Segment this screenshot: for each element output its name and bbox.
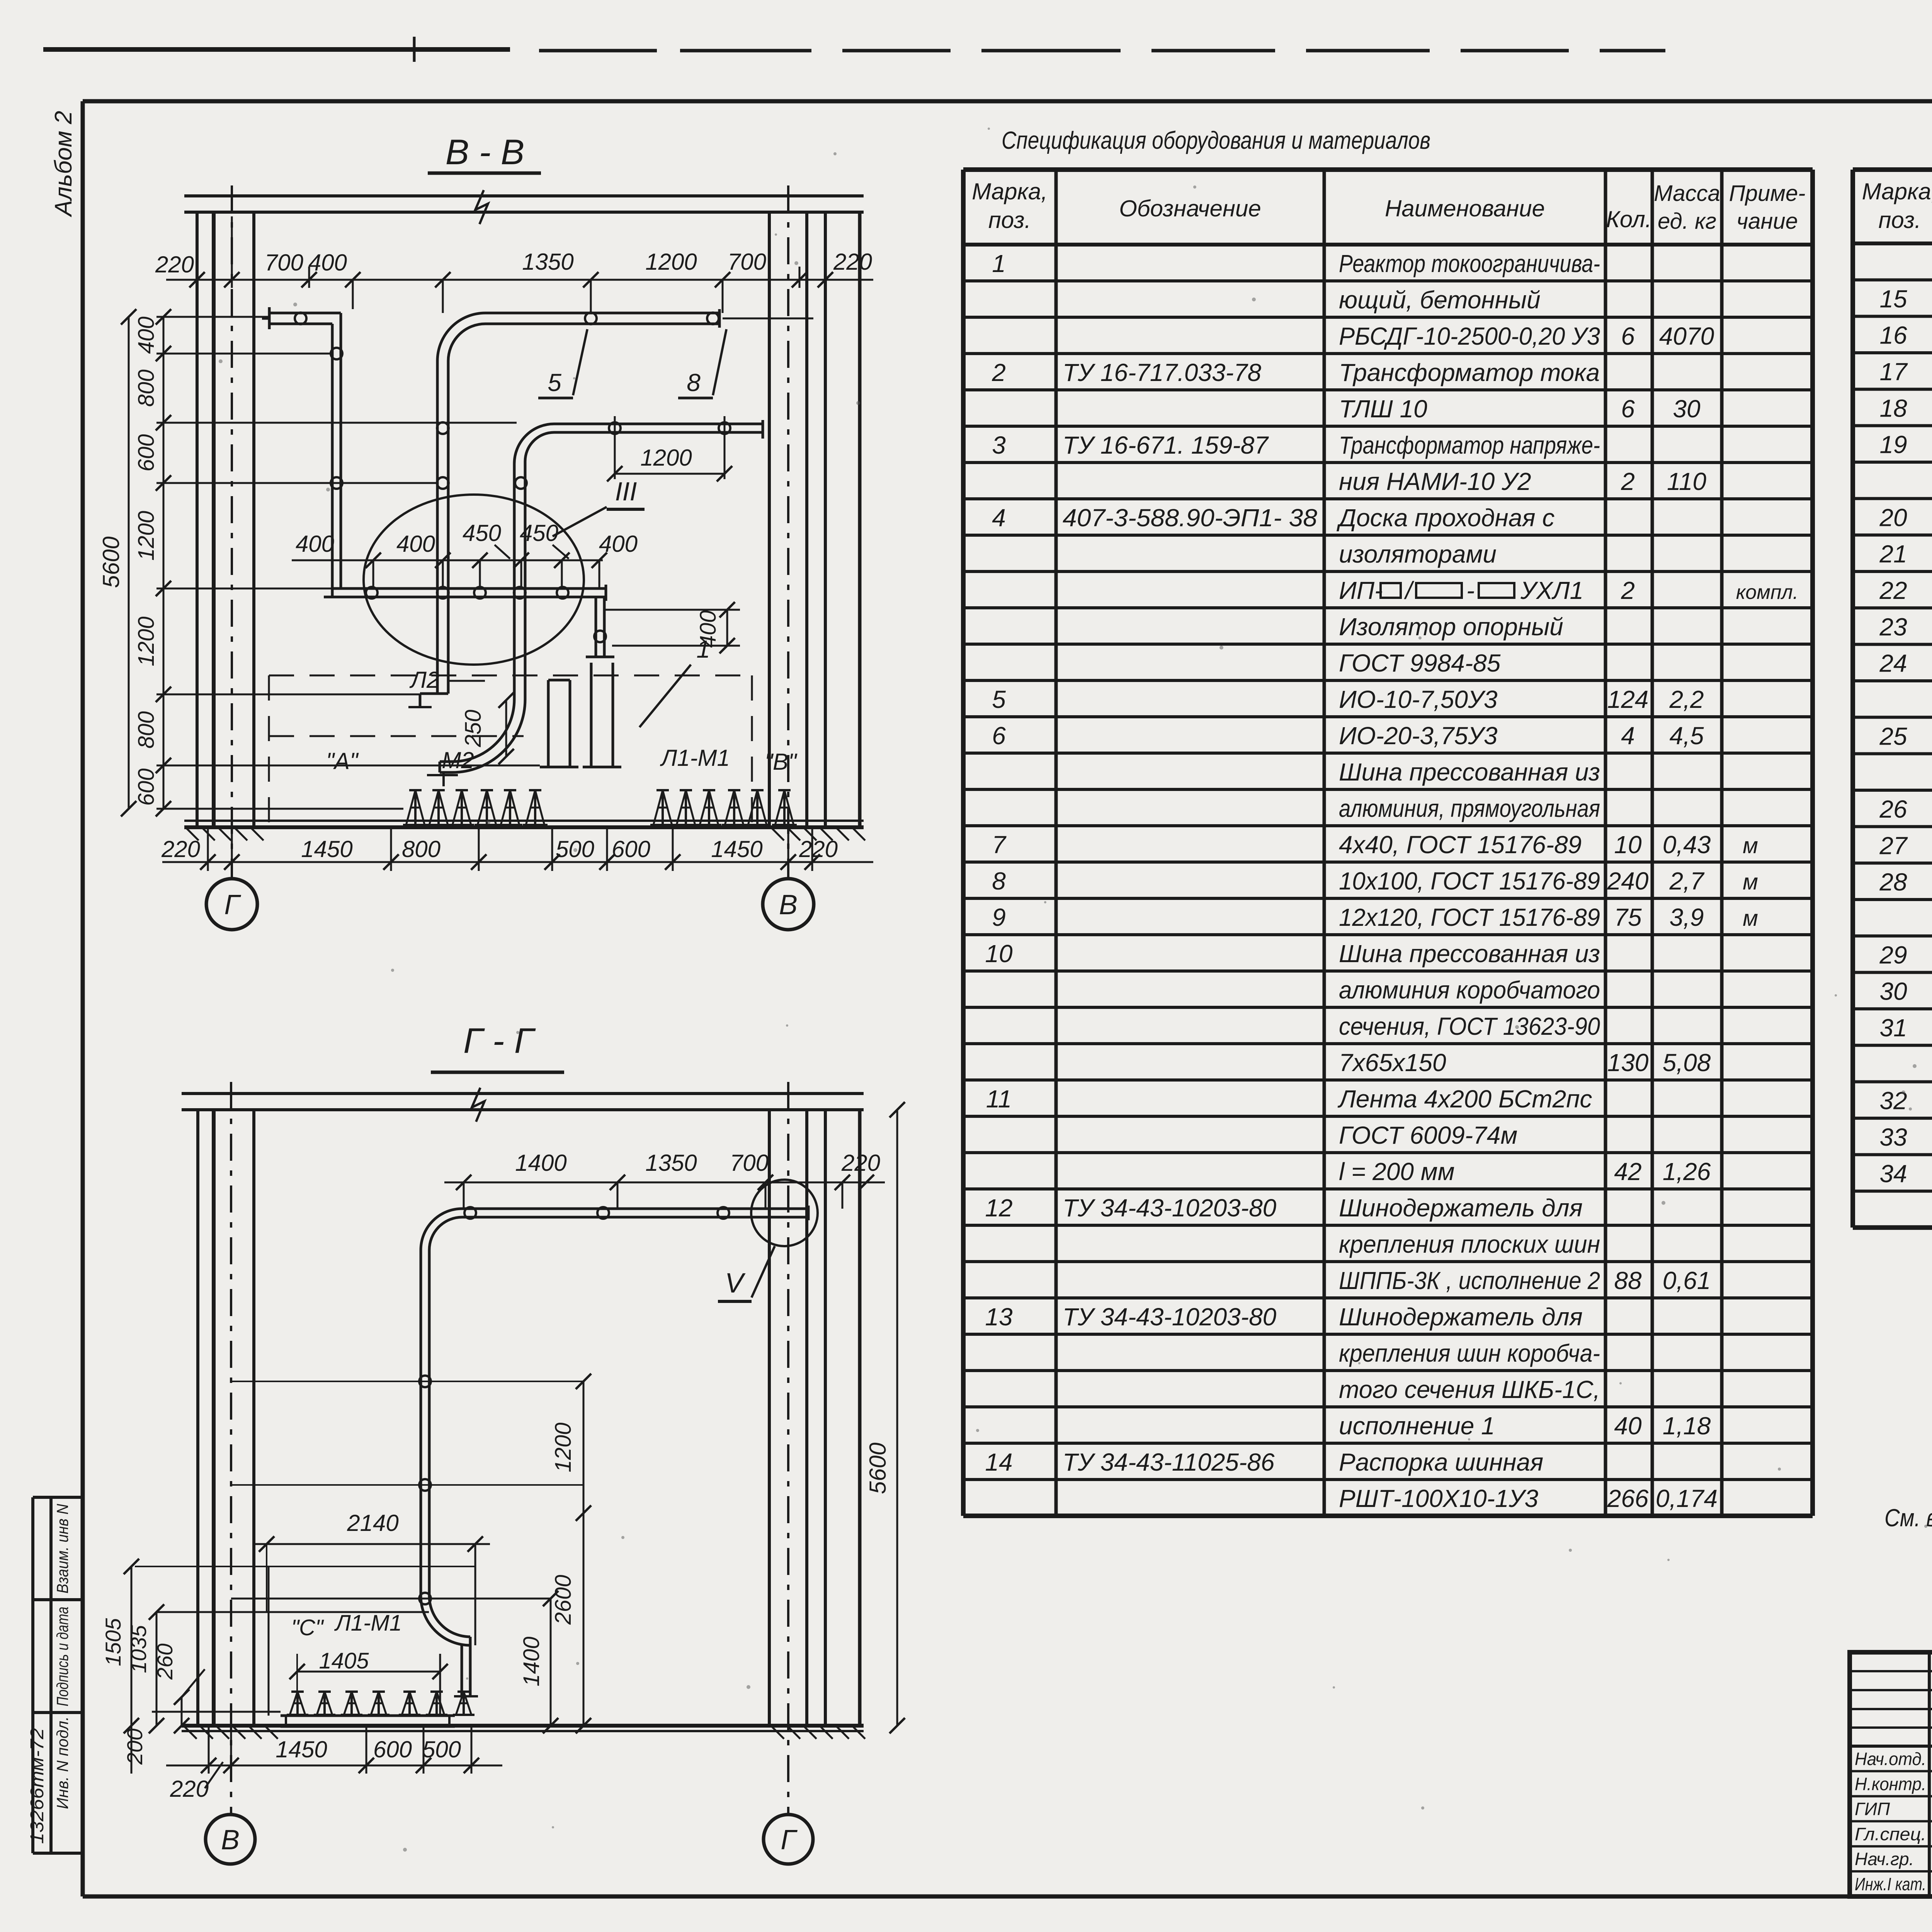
svg-text:Подпись и дата: Подпись и дата: [53, 1607, 71, 1706]
svg-text:поз.: поз.: [988, 207, 1031, 233]
svg-text:Доска проходная с: Доска проходная с: [1337, 504, 1554, 532]
svg-text:ТУ 16-671. 159-87: ТУ 16-671. 159-87: [1063, 431, 1269, 459]
svg-text:ТУ 34-43-10203-80: ТУ 34-43-10203-80: [1063, 1303, 1277, 1331]
svg-text:220: 220: [799, 836, 838, 862]
svg-text:450: 450: [520, 520, 558, 546]
svg-text:6: 6: [1621, 395, 1635, 423]
svg-text:3,9: 3,9: [1670, 903, 1704, 931]
svg-text:1505: 1505: [101, 1618, 125, 1666]
svg-text:2: 2: [992, 359, 1006, 386]
svg-text:м: м: [1743, 906, 1758, 931]
svg-text:800: 800: [134, 369, 159, 407]
svg-text:18: 18: [1879, 394, 1907, 422]
svg-text:21: 21: [1879, 540, 1907, 568]
svg-text:24: 24: [1879, 650, 1907, 677]
svg-text:V: V: [725, 1268, 746, 1299]
svg-text:40: 40: [1614, 1412, 1642, 1440]
svg-text:ШППБ-3К , исполнение 2: ШППБ-3К , исполнение 2: [1339, 1267, 1600, 1294]
svg-text:17: 17: [1879, 358, 1908, 386]
svg-text:поз.: поз.: [1878, 207, 1921, 233]
svg-text:Инж.I кат.: Инж.I кат.: [1855, 1874, 1926, 1894]
svg-text:700: 700: [265, 250, 303, 276]
svg-text:400: 400: [134, 316, 159, 354]
svg-text:130: 130: [1607, 1049, 1649, 1077]
svg-text:400: 400: [308, 250, 347, 276]
svg-text:88: 88: [1614, 1267, 1642, 1294]
svg-text:0,43: 0,43: [1663, 831, 1711, 859]
svg-text:ТУ 34-43-10203-80: ТУ 34-43-10203-80: [1063, 1194, 1277, 1222]
svg-text:ИП-: ИП-: [1339, 577, 1383, 604]
svg-text:крепления шин коробча-: крепления шин коробча-: [1339, 1339, 1600, 1367]
svg-text:ИО-10-7,50У3: ИО-10-7,50У3: [1339, 685, 1498, 713]
svg-text:30: 30: [1879, 978, 1907, 1005]
svg-text:220: 220: [155, 252, 194, 277]
svg-text:ТЛШ 10: ТЛШ 10: [1339, 395, 1427, 423]
svg-text:600: 600: [134, 769, 159, 806]
svg-text:700: 700: [730, 1150, 769, 1176]
svg-text:Обозначение: Обозначение: [1119, 196, 1261, 221]
svg-text:400: 400: [296, 531, 334, 557]
svg-text:110: 110: [1667, 468, 1706, 495]
svg-text:11: 11: [986, 1085, 1012, 1113]
svg-text:7: 7: [992, 831, 1007, 859]
svg-text:1200: 1200: [551, 1422, 576, 1472]
svg-text:-: -: [1466, 577, 1475, 604]
svg-text:Кол.: Кол.: [1606, 206, 1652, 232]
svg-text:3: 3: [992, 431, 1006, 459]
svg-text:изоляторами: изоляторами: [1339, 540, 1497, 568]
svg-text:1200: 1200: [645, 249, 697, 275]
svg-text:27: 27: [1879, 832, 1908, 859]
svg-text:Шинодержатель для: Шинодержатель для: [1339, 1194, 1583, 1222]
svg-text:4: 4: [992, 504, 1006, 532]
svg-text:Г: Г: [224, 889, 241, 920]
svg-text:5: 5: [548, 369, 561, 396]
svg-text:Изолятор опорный: Изолятор опорный: [1339, 613, 1563, 641]
svg-text:600: 600: [612, 836, 650, 862]
svg-text:Шинодержатель для: Шинодержатель для: [1339, 1303, 1583, 1331]
svg-text:"С": "С": [291, 1615, 324, 1640]
svg-text:ющий, бетонный: ющий, бетонный: [1339, 286, 1541, 314]
svg-text:Марка,: Марка,: [1862, 179, 1932, 204]
svg-text:Л1-М1: Л1-М1: [660, 745, 730, 771]
svg-text:См. вместе с листом ЭП1-24: См. вместе с листом ЭП1-24: [1884, 1504, 1932, 1532]
svg-text:13: 13: [985, 1303, 1013, 1331]
svg-text:30: 30: [1673, 395, 1701, 423]
svg-text:В: В: [221, 1825, 240, 1855]
svg-text:5,08: 5,08: [1663, 1049, 1711, 1077]
svg-text:"А": "А": [326, 748, 359, 774]
svg-text:1350: 1350: [645, 1150, 697, 1176]
svg-text:407-3-588.90-ЭП1- 38: 407-3-588.90-ЭП1- 38: [1063, 504, 1317, 532]
svg-text:12: 12: [985, 1194, 1012, 1222]
svg-text:28: 28: [1879, 868, 1907, 896]
svg-text:260: 260: [153, 1643, 177, 1680]
svg-text:2600: 2600: [551, 1575, 576, 1625]
svg-text:400: 400: [396, 531, 435, 557]
svg-text:600: 600: [134, 434, 159, 472]
svg-text:Распорка шинная: Распорка шинная: [1339, 1448, 1543, 1476]
svg-text:Трансформатор напряже-: Трансформатор напряже-: [1339, 431, 1600, 459]
svg-text:ТУ 16-717.033-78: ТУ 16-717.033-78: [1063, 359, 1262, 386]
svg-text:Н.контр.: Н.контр.: [1855, 1774, 1926, 1794]
svg-text:1,18: 1,18: [1663, 1412, 1711, 1440]
svg-text:1400: 1400: [519, 1636, 544, 1686]
svg-text:1035: 1035: [126, 1625, 151, 1673]
svg-text:III: III: [615, 477, 637, 506]
svg-text:м: м: [1743, 833, 1758, 858]
svg-text:2,7: 2,7: [1669, 867, 1705, 895]
svg-text:10х100, ГОСТ 15176-89: 10х100, ГОСТ 15176-89: [1339, 867, 1600, 895]
svg-text:10: 10: [985, 940, 1013, 968]
svg-text:1450: 1450: [301, 836, 352, 862]
svg-text:8: 8: [992, 867, 1006, 895]
svg-text:13266тм-72: 13266тм-72: [27, 1728, 48, 1844]
svg-text:Спецификация оборудования и ма: Спецификация оборудования и материалов: [1002, 126, 1430, 154]
svg-text:Взаим. инв N: Взаим. инв N: [53, 1503, 71, 1594]
svg-text:16: 16: [1879, 321, 1907, 349]
svg-text:Шина прессованная из: Шина прессованная из: [1339, 758, 1600, 786]
svg-text:Лента 4х200 БСт2пс: Лента 4х200 БСт2пс: [1337, 1085, 1592, 1113]
svg-text:25: 25: [1879, 722, 1907, 750]
svg-text:800: 800: [134, 711, 159, 749]
svg-text:2: 2: [1621, 577, 1635, 604]
svg-text:Реактор токоограничива-: Реактор токоограничива-: [1339, 250, 1600, 277]
svg-text:УХЛ1: УХЛ1: [1520, 577, 1583, 604]
svg-text:4: 4: [1621, 722, 1635, 750]
svg-text:5600: 5600: [865, 1442, 891, 1494]
svg-text:800: 800: [402, 836, 440, 862]
svg-text:1: 1: [696, 635, 710, 663]
svg-text:Л2: Л2: [409, 667, 440, 693]
svg-text:1: 1: [992, 250, 1006, 277]
svg-text:1350: 1350: [522, 249, 573, 275]
svg-text:2: 2: [1621, 468, 1635, 495]
svg-text:0,61: 0,61: [1663, 1267, 1711, 1294]
svg-text:124: 124: [1607, 685, 1649, 713]
svg-text:23: 23: [1879, 613, 1907, 641]
svg-text:Г: Г: [781, 1825, 798, 1855]
svg-text:9: 9: [992, 903, 1006, 931]
svg-text:0,174: 0,174: [1656, 1485, 1718, 1512]
svg-text:Шина прессованная из: Шина прессованная из: [1339, 940, 1600, 968]
svg-text:4,5: 4,5: [1670, 722, 1704, 750]
svg-text:/: /: [1404, 577, 1415, 604]
svg-text:М2: М2: [442, 747, 474, 773]
svg-text:1200: 1200: [640, 445, 692, 471]
svg-text:ния НАМИ-10 У2: ния НАМИ-10 У2: [1339, 468, 1531, 495]
svg-text:6: 6: [1621, 322, 1635, 350]
svg-text:250: 250: [461, 710, 486, 748]
svg-text:В - В: В - В: [446, 133, 524, 172]
svg-text:того сечения ШКБ-1С,: того сечения ШКБ-1С,: [1339, 1376, 1600, 1403]
svg-text:РШТ-100Х10-1У3: РШТ-100Х10-1У3: [1339, 1485, 1538, 1512]
svg-text:ГОСТ 9984-85: ГОСТ 9984-85: [1339, 649, 1501, 677]
svg-text:чание: чание: [1736, 209, 1798, 234]
svg-text:220: 220: [833, 249, 872, 275]
svg-text:ТУ 34-43-11025-86: ТУ 34-43-11025-86: [1063, 1448, 1275, 1476]
svg-text:ГОСТ 6009-74м: ГОСТ 6009-74м: [1339, 1121, 1517, 1149]
svg-text:450: 450: [463, 520, 501, 546]
svg-text:2,2: 2,2: [1669, 685, 1704, 713]
svg-text:12х120, ГОСТ 15176-89: 12х120, ГОСТ 15176-89: [1339, 903, 1600, 931]
svg-text:сечения, ГОСТ 13623-90: сечения, ГОСТ 13623-90: [1339, 1012, 1600, 1040]
svg-text:Марка,: Марка,: [972, 179, 1048, 204]
svg-text:22: 22: [1879, 577, 1907, 604]
svg-text:29: 29: [1879, 941, 1907, 969]
svg-text:Л1-М1: Л1-М1: [334, 1611, 402, 1636]
svg-text:500: 500: [422, 1736, 461, 1762]
svg-text:240: 240: [1607, 867, 1649, 895]
svg-text:1450: 1450: [711, 836, 762, 862]
svg-text:4х40, ГОСТ 15176-89: 4х40, ГОСТ 15176-89: [1339, 831, 1582, 859]
svg-text:6: 6: [992, 722, 1006, 750]
svg-text:31: 31: [1879, 1014, 1907, 1042]
svg-text:1200: 1200: [134, 511, 159, 561]
svg-text:алюминия, прямоугольная: алюминия, прямоугольная: [1339, 794, 1600, 822]
svg-text:м: м: [1743, 869, 1758, 895]
svg-text:400: 400: [599, 531, 638, 557]
svg-text:2140: 2140: [347, 1510, 398, 1536]
svg-text:34: 34: [1879, 1160, 1907, 1187]
svg-text:266: 266: [1607, 1485, 1649, 1512]
svg-text:Инв. N подл.: Инв. N подл.: [53, 1716, 71, 1809]
svg-text:Гл.спец.: Гл.спец.: [1855, 1824, 1926, 1844]
svg-text:Г - Г: Г - Г: [463, 1021, 536, 1061]
svg-text:8: 8: [687, 369, 701, 396]
svg-text:1400: 1400: [515, 1150, 566, 1176]
svg-text:42: 42: [1614, 1158, 1641, 1185]
svg-text:26: 26: [1879, 795, 1907, 823]
svg-text:Наименование: Наименование: [1385, 196, 1545, 221]
svg-text:исполнение 1: исполнение 1: [1339, 1412, 1495, 1440]
svg-text:ед. кг: ед. кг: [1658, 209, 1716, 234]
svg-text:200: 200: [122, 1728, 147, 1765]
svg-text:1200: 1200: [134, 616, 159, 666]
svg-text:1,26: 1,26: [1663, 1158, 1711, 1185]
svg-text:Альбом 2: Альбом 2: [50, 111, 77, 218]
svg-text:10: 10: [1614, 831, 1642, 859]
svg-text:Масса: Масса: [1654, 181, 1720, 206]
svg-text:20: 20: [1879, 503, 1907, 531]
svg-text:1450: 1450: [276, 1736, 327, 1762]
svg-text:Приме-: Приме-: [1729, 181, 1806, 206]
svg-text:ГИП: ГИП: [1855, 1799, 1890, 1819]
svg-text:7х65х150: 7х65х150: [1339, 1049, 1446, 1077]
svg-text:Трансформатор тока: Трансформатор тока: [1339, 359, 1600, 386]
svg-text:700: 700: [728, 249, 766, 275]
svg-text:l = 200 мм: l = 200 мм: [1339, 1158, 1454, 1185]
svg-text:1405: 1405: [319, 1648, 369, 1673]
svg-text:компл.: компл.: [1736, 581, 1799, 604]
svg-text:5: 5: [992, 685, 1006, 713]
svg-text:ИО-20-3,75У3: ИО-20-3,75У3: [1339, 722, 1498, 750]
svg-text:алюминия коробчатого: алюминия коробчатого: [1339, 976, 1600, 1004]
svg-text:600: 600: [373, 1736, 412, 1762]
svg-text:В: В: [779, 889, 798, 920]
svg-text:33: 33: [1879, 1123, 1907, 1151]
svg-text:"В": "В": [765, 749, 798, 775]
svg-text:220: 220: [170, 1776, 209, 1802]
svg-text:15: 15: [1879, 285, 1907, 313]
svg-text:5600: 5600: [98, 536, 124, 588]
svg-text:220: 220: [161, 836, 200, 862]
svg-text:Нач.отд.: Нач.отд.: [1855, 1749, 1926, 1769]
svg-text:75: 75: [1614, 903, 1642, 931]
svg-text:крепления плоских шин: крепления плоских шин: [1339, 1230, 1600, 1258]
svg-text:14: 14: [985, 1448, 1012, 1476]
svg-text:Нач.гр.: Нач.гр.: [1855, 1849, 1914, 1869]
svg-text:220: 220: [841, 1150, 880, 1176]
svg-text:РБСДГ-10-2500-0,20 У3: РБСДГ-10-2500-0,20 У3: [1339, 322, 1600, 350]
svg-text:19: 19: [1879, 431, 1907, 459]
svg-text:4070: 4070: [1659, 322, 1714, 350]
